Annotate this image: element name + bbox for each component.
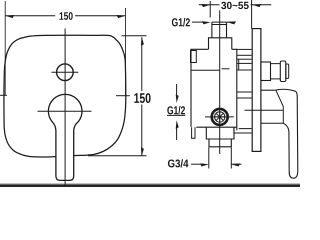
dimension 150 width: extension lines, dim line, arrowheads bbox=[4, 1, 6, 96]
diverter button circle with crosshair bbox=[57, 64, 74, 81]
dim text 150 (height) bbox=[134, 93, 150, 103]
side view: mounting bracket lines between body and wall plate bbox=[237, 48, 252, 50]
side view: G1/2 side inlet port (ring with spokes) bbox=[212, 109, 228, 125]
front view: escutcheon plate outline (150x150) bbox=[4, 35, 126, 157]
side view: spout end caps bbox=[280, 61, 286, 82]
label leader G1/2 top with arrowheads bbox=[192, 21, 204, 23]
side view: spout neck lines bbox=[271, 64, 281, 79]
wall baseline (thick bottom border) bbox=[0, 184, 300, 185]
knob horizontal crosshair bbox=[38, 110, 92, 112]
dimension 150 height: extension lines, dim line, arrowheads bbox=[122, 35, 147, 37]
side view: top flange bbox=[209, 38, 232, 50]
side view: valve body vertical centerline bbox=[219, 10, 221, 154]
label G1/2 side port bbox=[167, 106, 185, 115]
label G1/2 side: arrows and underline bbox=[176, 84, 178, 98]
label G1/2 top port bbox=[172, 18, 190, 27]
side view: top port G1/2 stem and cap bbox=[211, 22, 213, 38]
dimension G3/4: extension lines, arrows bbox=[208, 148, 210, 169]
front view: lever handle (knob circle + stem, white filled) bbox=[48, 94, 82, 180]
side view: body internal parting lines bbox=[191, 69, 220, 71]
dim text 150 (width) bbox=[60, 12, 73, 20]
side view: small square boss on body top-left bbox=[191, 51, 197, 63]
side view: bottom port G3/4 pipe bbox=[209, 139, 231, 147]
side view: handle lever blade bbox=[283, 91, 298, 178]
plate horizontal centerline ticks bbox=[0, 94, 7, 96]
dim text 30~55 bbox=[221, 2, 249, 9]
front view vertical centerline bbox=[64, 29, 66, 187]
side view: bottom port G3/4 collar bbox=[206, 127, 234, 139]
label G3/4 bottom port bbox=[168, 159, 189, 167]
side view: step under body bottom-left bbox=[192, 127, 195, 138]
dimension text labels (vector glyphs) bbox=[57, 9, 75, 21]
side view: wall trim plate (vertical bar) bbox=[252, 29, 261, 152]
side view: spout base block bbox=[261, 62, 271, 81]
side view: handle hub cone bbox=[261, 89, 276, 91]
side view: valve body outline and bottom steps bbox=[191, 49, 209, 127]
dimension 30~55: extension lines, dim line, arrowheads bbox=[209, 1, 211, 18]
side port horizontal crosshair bbox=[205, 116, 234, 118]
